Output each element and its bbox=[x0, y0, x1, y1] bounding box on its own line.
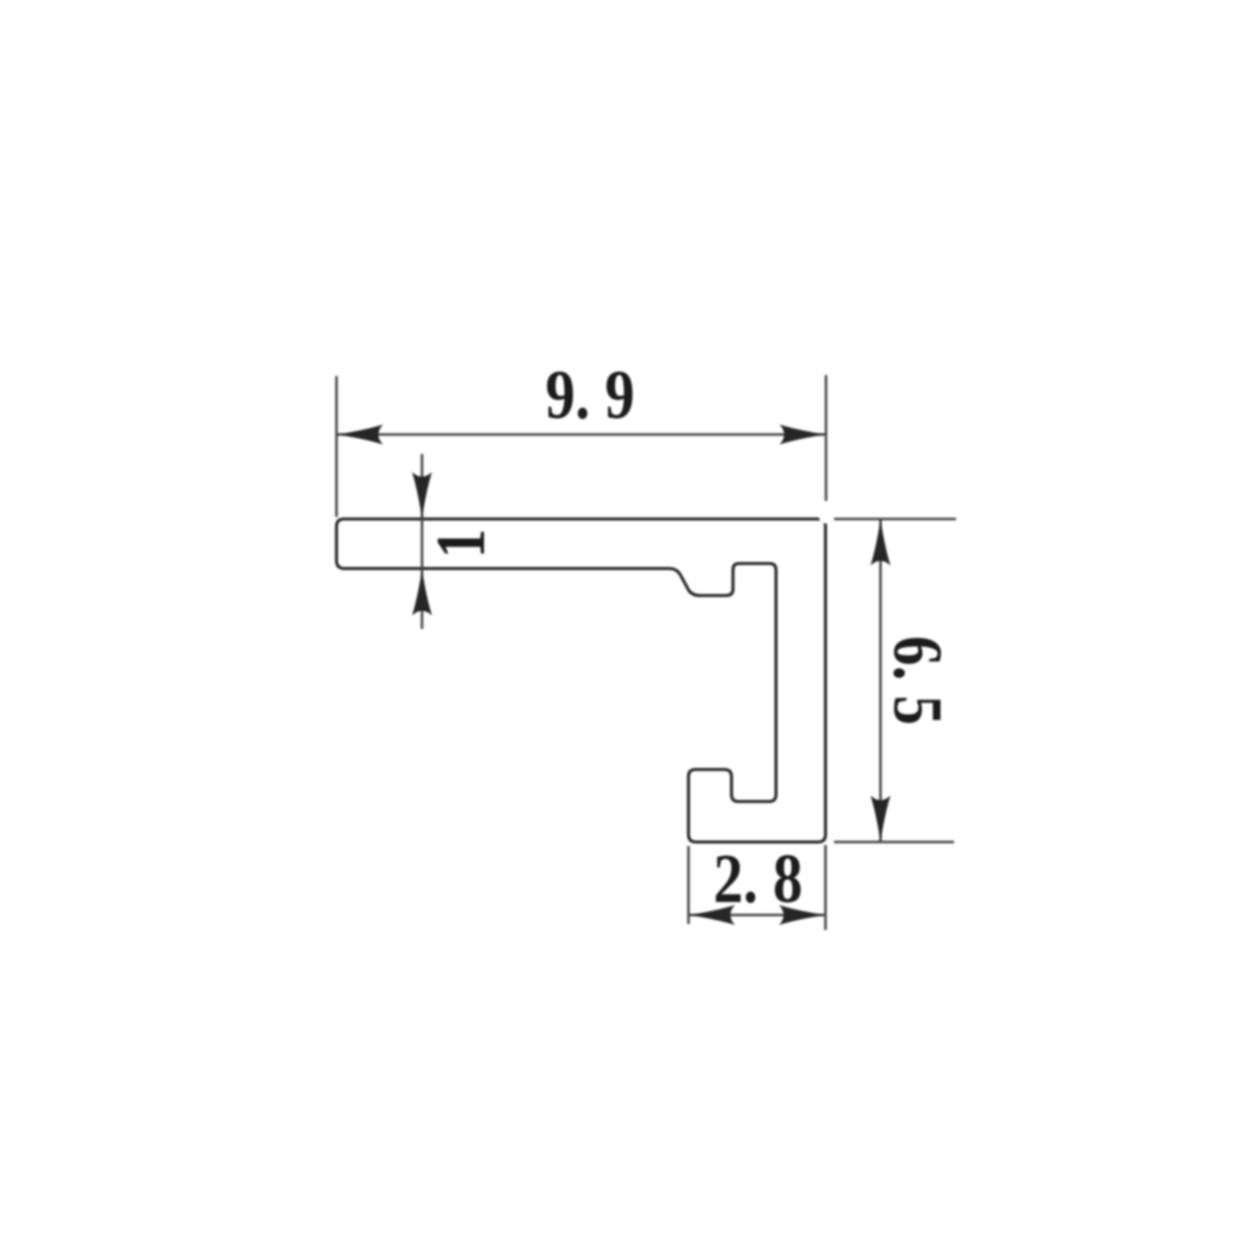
dim 1 upper arrowhead (points down) bbox=[412, 472, 432, 519]
profile outline bbox=[337, 519, 826, 842]
dim 1 (thickness) dimension line bbox=[421, 454, 424, 629]
dim 9.9 right arrowhead bbox=[780, 425, 827, 445]
dim 6.5 top arrowhead (points up) bbox=[871, 519, 891, 566]
dim 9.9 left extension line bbox=[335, 376, 338, 517]
dim 2.8 right extension line bbox=[824, 845, 827, 930]
dim 1 lower arrowhead (points up) bbox=[412, 569, 432, 616]
svg-text:2. 8: 2. 8 bbox=[713, 841, 802, 919]
dim 2.8 left extension line bbox=[687, 846, 690, 924]
dim 6.5 bottom extension line bbox=[834, 841, 954, 844]
dim 6.5 top extension line bbox=[834, 518, 956, 521]
dim 6.5 bottom arrowhead (points down) bbox=[871, 796, 891, 843]
dim 2.8 left arrowhead bbox=[689, 905, 736, 925]
dim 2.8 right arrowhead bbox=[779, 905, 826, 925]
white junction erosion at top-right corner bbox=[819, 511, 832, 524]
dim 2.8 dimension line bbox=[689, 914, 826, 917]
dim 9.9 right extension line bbox=[825, 375, 828, 501]
svg-text:9. 9: 9. 9 bbox=[545, 357, 634, 435]
dim 9.9 dimension line bbox=[337, 433, 827, 436]
dim 9.9 left arrowhead bbox=[337, 425, 384, 445]
dim 6.5 dimension line bbox=[879, 519, 882, 842]
svg-text:1: 1 bbox=[423, 529, 501, 559]
svg-text:6. 5: 6. 5 bbox=[878, 636, 956, 725]
